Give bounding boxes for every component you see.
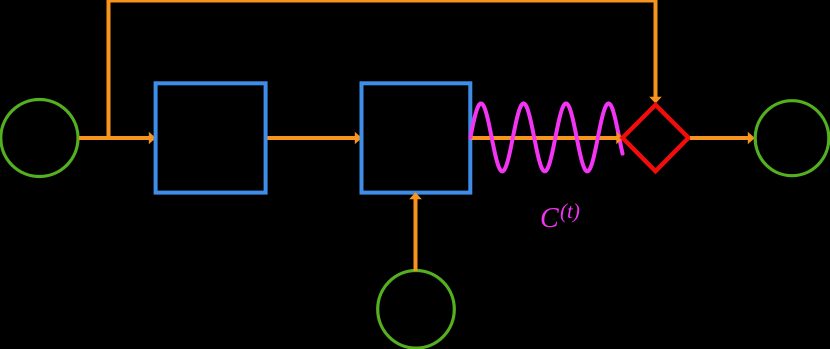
wire: feedback right drop into mixer diamond (orange arrow down)	[649, 0, 662, 104]
mixer diamond (red)	[623, 105, 689, 171]
wire: box 2 to mixer diamond (orange line under wave)	[470, 136, 618, 140]
wire: bottom circle up to box 2 (orange arrow)	[409, 192, 422, 271]
wire: feedback top horizontal	[107, 0, 658, 3]
svg-text:C: C	[540, 203, 559, 234]
signal: magenta sine wave C(t)	[470, 103, 622, 171]
node: left input circle	[1, 100, 78, 177]
wire: left circle to box 1 (orange arrow)	[79, 132, 156, 145]
node: right output circle	[755, 101, 829, 176]
node: bottom input circle	[378, 271, 455, 349]
box 1 (blue square)	[156, 83, 266, 192]
wire: box 1 to box 2 (orange arrow)	[268, 132, 362, 145]
wire: diamond to right circle (orange arrow)	[690, 132, 755, 145]
box 2 (blue square)	[362, 83, 471, 192]
wire: box 2 to mixer diamond arrowhead	[616, 132, 623, 145]
wire: feedback junction riser (vertical at x=108.5)	[107, 1, 111, 140]
svg-text:(t): (t)	[560, 199, 580, 223]
